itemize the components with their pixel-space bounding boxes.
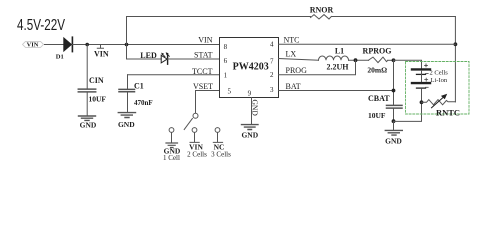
wire RPROG to battery node	[388, 59, 394, 61]
wire TCCT net from C1 to IC pin 1	[128, 74, 220, 76]
wire CIN to ground	[86, 93, 88, 116]
capacitor CBAT	[387, 104, 403, 106]
svg-text:GND: GND	[251, 100, 260, 117]
switch contact 1 (1 Cell)	[169, 128, 174, 133]
svg-text:470nF: 470nF	[134, 99, 153, 107]
junction L1/PROG	[354, 58, 358, 62]
junction battery minus/RNTC	[420, 100, 424, 104]
svg-text:VSET: VSET	[193, 82, 213, 91]
wire contact 1 stub	[171, 133, 173, 143]
wire VIN node down to CIN	[86, 45, 88, 89]
svg-text:VIN: VIN	[94, 50, 109, 59]
wire CBAT to bottom node	[393, 109, 395, 122]
wire VSET net from switch to IC pin 5	[196, 90, 220, 92]
svg-text:4.5V-22V: 4.5V-22V	[17, 17, 65, 34]
ground below CBAT	[385, 130, 402, 135]
IC U1 PW4203 body	[220, 38, 279, 98]
diode D1	[64, 37, 73, 51]
svg-text:BAT: BAT	[286, 82, 301, 91]
wire TCCT corner down to C1	[127, 75, 129, 89]
wire C1 to ground	[127, 92, 129, 112]
svg-text:2.2UH: 2.2UH	[327, 62, 350, 71]
ground below IC pin 9	[242, 125, 259, 130]
svg-text:LED: LED	[140, 51, 157, 60]
svg-text:GND: GND	[118, 120, 135, 129]
wire contact 3 stub with net tick	[213, 133, 222, 143]
svg-text:RPROG: RPROG	[363, 46, 392, 55]
wire VIN node down and right to LED anode	[127, 45, 162, 60]
svg-text:1 Cell: 1 Cell	[163, 154, 180, 162]
LED (status)	[161, 52, 169, 64]
svg-text:CBAT: CBAT	[368, 94, 390, 103]
svg-text:VIN: VIN	[27, 42, 39, 49]
wire riser VIN node to top rail	[126, 17, 128, 45]
svg-text:VIN: VIN	[198, 36, 212, 45]
wire top rail left of RNOR	[127, 16, 311, 18]
ground below C1	[118, 113, 135, 118]
svg-text:3: 3	[270, 86, 274, 94]
svg-text:NTC: NTC	[284, 35, 300, 44]
wire LED cathode to IC pin 6 (STAT net)	[167, 58, 219, 60]
svg-text:LX: LX	[286, 49, 297, 58]
wire contact 2 stub with net tick	[190, 133, 199, 143]
capacitor CIN	[78, 88, 95, 90]
svg-text:10UF: 10UF	[368, 111, 386, 120]
svg-text:5: 5	[228, 87, 232, 95]
svg-text:20mΩ: 20mΩ	[367, 65, 387, 74]
junction CBAT bottom/battery return	[392, 119, 396, 123]
wire cell 2 to bottom junction	[421, 89, 423, 103]
battery BT1 cell 1 plates	[412, 68, 430, 70]
svg-text:8: 8	[224, 43, 228, 51]
wire battery minus return	[394, 102, 422, 121]
wire NTC net from pin 4 to right rail	[279, 43, 456, 45]
switch arm	[184, 119, 192, 130]
wire IC pin 9 to ground	[251, 98, 253, 124]
svg-text:4: 4	[270, 40, 274, 48]
thermistor arrow	[432, 94, 448, 108]
svg-text:3 Cells: 3 Cells	[211, 151, 231, 159]
thermistor RNTC	[422, 100, 456, 105]
svg-text:6: 6	[224, 57, 228, 65]
wire input port to diode D1 anode	[45, 44, 64, 46]
ground below contact 1	[166, 143, 178, 148]
wire PROG net from pin 2 up to L1 junction	[279, 60, 356, 74]
resistor RNOR	[311, 15, 332, 19]
svg-text:Li-Ion: Li-Ion	[431, 77, 448, 84]
wire VSET down to switch pole	[195, 91, 197, 114]
wire top rail right of RNOR	[332, 16, 456, 18]
svg-text:TCCT: TCCT	[192, 67, 213, 76]
svg-text:L1: L1	[335, 47, 344, 56]
svg-text:C1: C1	[134, 82, 144, 91]
svg-text:GND: GND	[241, 131, 258, 140]
switch contact 2 (2 Cells)	[192, 128, 197, 133]
battery pack dashed outline	[406, 62, 470, 115]
svg-text:2: 2	[270, 71, 274, 79]
svg-text:9: 9	[248, 89, 252, 97]
wire LX net from pin 7 to L1	[279, 59, 319, 61]
svg-text:D1: D1	[56, 54, 64, 61]
switch pole contact	[193, 113, 198, 118]
junction RPROG/BAT/battery	[392, 58, 396, 62]
wire L1 to RPROG	[349, 59, 369, 61]
svg-text:2 Cells: 2 Cells	[187, 151, 207, 159]
switch contact 3 (3 Cells)	[215, 128, 220, 133]
junction VIN/CIN	[85, 43, 89, 47]
svg-text:GND: GND	[80, 121, 97, 130]
net port flag VIN (input)	[23, 41, 44, 47]
svg-text:GND: GND	[385, 137, 402, 146]
svg-text:7: 7	[270, 57, 274, 65]
capacitor C1	[119, 88, 135, 90]
ground below CIN	[79, 116, 96, 120]
svg-text:10UF: 10UF	[89, 95, 107, 104]
junction BAT/CBAT	[392, 89, 396, 93]
net tick VIN on input line	[97, 45, 103, 49]
wire node down to BAT line and CBAT	[393, 60, 395, 104]
svg-text:PW4203: PW4203	[233, 62, 269, 73]
svg-text:CIN: CIN	[89, 76, 104, 85]
wire D1 cathode to IC pin 8 (VIN net)	[72, 44, 219, 46]
junction NTC/right rail	[454, 42, 458, 46]
wire right rail down to RNTC	[454, 17, 456, 102]
battery polarity mark minus (cell 2)	[426, 86, 429, 88]
junction VIN/top rail	[125, 43, 129, 47]
svg-text:RNOR: RNOR	[310, 5, 334, 14]
svg-text:PROG: PROG	[286, 66, 308, 75]
battery polarity mark plus (cell 2)	[425, 78, 428, 81]
wire between cells	[421, 71, 423, 83]
svg-text:2 Cells: 2 Cells	[430, 69, 449, 76]
battery polarity mark plus (cell 1)	[425, 64, 428, 67]
svg-text:1: 1	[224, 72, 228, 80]
svg-text:RNTC: RNTC	[436, 108, 460, 118]
battery polarity mark minus (cell 1)	[426, 72, 429, 74]
inductor L1	[319, 56, 349, 60]
wire bottom node to ground	[393, 121, 395, 129]
resistor RPROG	[369, 57, 388, 63]
battery BT1 cell 2 plates	[412, 82, 430, 84]
svg-text:STAT: STAT	[194, 51, 213, 60]
wire battery feed to battery plus	[394, 60, 422, 68]
wire BAT net from pin 3	[279, 90, 394, 92]
